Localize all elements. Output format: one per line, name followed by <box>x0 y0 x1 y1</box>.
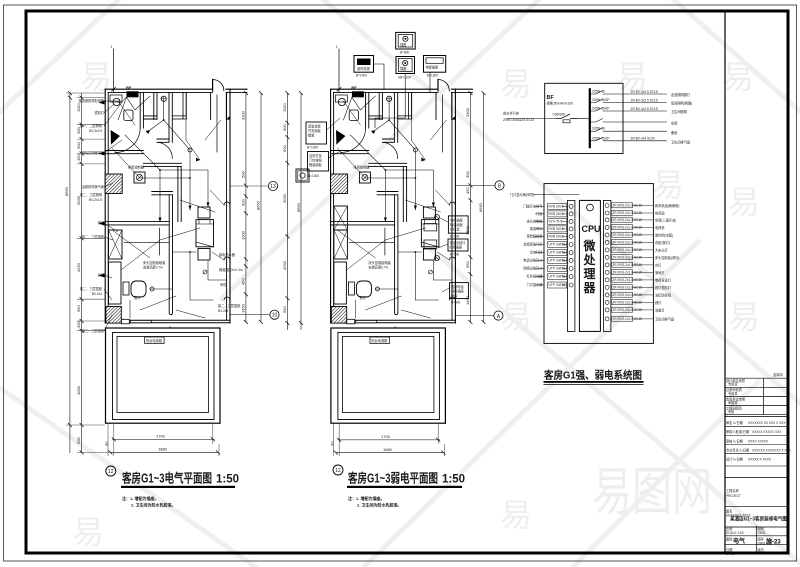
svg-text:微: 微 <box>583 238 597 253</box>
section line 2 <box>725 506 789 508</box>
svg-text:新风机组(两管制): 新风机组(两管制) <box>655 203 679 208</box>
svg-text:电话出线口x2: 电话出线口x2 <box>523 258 543 263</box>
mid right ticks <box>468 91 485 324</box>
grid circle 10 <box>270 310 279 319</box>
niche wall extension <box>216 95 218 152</box>
grid line B <box>456 184 495 186</box>
svg-text:房间照明(两路): 房间照明(两路) <box>671 100 692 105</box>
svg-text:电视背景灯: 电视背景灯 <box>655 277 672 282</box>
entry corridor wall <box>157 92 172 142</box>
wall: right outer <box>229 89 231 323</box>
svg-text:床头控制板: 床头控制板 <box>527 219 544 224</box>
bottom table lines <box>725 527 789 545</box>
svg-text:廊灯: 廊灯 <box>655 300 662 305</box>
svg-text:专业负责人/日期: 专业负责人/日期 <box>726 448 749 453</box>
wire to busbar <box>578 118 590 120</box>
branch 4 <box>590 119 678 126</box>
balcony wall inner <box>117 337 209 413</box>
svg-text:950: 950 <box>76 305 81 312</box>
wall: left outer <box>104 89 106 323</box>
dim texts left column <box>76 103 81 444</box>
svg-text:排风控制器: 排风控制器 <box>128 165 145 170</box>
svg-text:暗装插座h=0.3m: 暗装插座h=0.3m <box>219 267 243 272</box>
fixture: tub outline <box>110 95 122 102</box>
svg-text:BV-2x2.5: BV-2x2.5 <box>89 198 102 202</box>
svg-text:网络插座: 网络插座 <box>450 245 464 250</box>
svg-text:请勿打扰: 请勿打扰 <box>309 153 323 158</box>
boxed label L2 text <box>309 153 323 167</box>
watermark glyphs <box>72 59 760 550</box>
junction phi <box>203 270 207 274</box>
svg-text:1700: 1700 <box>156 434 166 439</box>
svg-text:门铃: 门铃 <box>536 211 543 216</box>
bottom cells <box>726 526 772 556</box>
svg-text:12: 12 <box>108 469 114 475</box>
svg-text:ZR-BV-3x2.5 SC15: ZR-BV-3x2.5 SC15 <box>631 90 658 94</box>
svg-text:2. 卫生间为防水乳胶漆。: 2. 卫生间为防水乳胶漆。 <box>131 502 175 508</box>
leader L1 <box>327 118 343 158</box>
svg-text:门口显示牌: 门口显示牌 <box>527 282 544 287</box>
BF box <box>545 83 623 153</box>
svg-text:1:50: 1:50 <box>442 474 465 486</box>
svg-text:4000: 4000 <box>76 385 81 395</box>
mid dim line right B <box>483 93 485 322</box>
branch 6 <box>590 136 690 144</box>
svg-text:客房G1~3电气平面图: 客房G1~3电气平面图 <box>121 471 212 486</box>
wall: bedroom top <box>105 222 169 225</box>
leader lines into plan <box>104 97 126 331</box>
svg-text:4250: 4250 <box>76 262 81 272</box>
title block divider <box>724 10 726 555</box>
svg-text:DWG.: DWG. <box>758 531 767 535</box>
svg-text:接二、三层插座: 接二、三层插座 <box>80 286 103 291</box>
svg-text:950: 950 <box>282 306 287 313</box>
svg-text:音量选择: 音量选择 <box>308 124 322 129</box>
svg-text:B=1300: B=1300 <box>307 146 318 150</box>
desk <box>109 262 122 304</box>
downlight B <box>150 287 154 291</box>
balcony wall mid <box>113 333 215 420</box>
wire arrows <box>146 130 210 222</box>
right dim ticks <box>244 91 263 324</box>
title block col divider upper <box>763 378 765 415</box>
grid line N <box>113 49 115 92</box>
svg-text:易: 易 <box>72 514 104 550</box>
mid wardrobe extension <box>334 206 348 230</box>
svg-text:易: 易 <box>728 184 760 220</box>
branch 3 <box>590 107 687 114</box>
svg-text:电气: 电气 <box>733 537 745 545</box>
svg-text:KB=1200: KB=1200 <box>398 76 411 80</box>
svg-text:理: 理 <box>584 267 596 281</box>
mid right boxed label R1 <box>448 216 468 233</box>
wire from box C <box>375 74 405 129</box>
svg-text:迷你吧(冰箱): 迷你吧(冰箱) <box>655 232 673 237</box>
svg-text:12: 12 <box>335 468 341 474</box>
svg-text:备用: 备用 <box>671 130 677 135</box>
svg-text:600: 600 <box>282 145 287 152</box>
svg-text:XXXXX X XXXX: XXXXX X XXXX <box>748 458 772 462</box>
svg-text:甲供: 甲供 <box>220 282 227 287</box>
entry rows mid <box>726 420 792 462</box>
svg-text:易: 易 <box>728 299 760 335</box>
circle 12 left <box>106 466 116 476</box>
right margin tiny labels <box>218 252 243 313</box>
wall: center partition <box>169 195 172 315</box>
boxed symbol L3 <box>296 169 309 182</box>
svg-text:版次: 版次 <box>758 547 765 552</box>
wardrobe X <box>109 230 123 259</box>
entry door leaf <box>212 80 214 92</box>
svg-text:落地灯: 落地灯 <box>655 270 665 275</box>
dim hlines left <box>66 93 110 452</box>
symbol box B outer <box>396 32 416 49</box>
svg-text:门磁开关信号: 门磁开关信号 <box>523 204 542 209</box>
left terminal strip <box>567 200 575 331</box>
junction dots <box>189 177 191 179</box>
dim 1700 <box>112 438 214 440</box>
svg-text:300: 300 <box>76 321 81 328</box>
svg-text:B=1400: B=1400 <box>356 74 367 78</box>
svg-text:某酒店G1~3客房装修电气图: 某酒店G1~3客房装修电气图 <box>729 516 787 523</box>
svg-text:B=800: B=800 <box>400 51 410 55</box>
symbol box A fill <box>357 59 371 66</box>
svg-text:暗装: 暗装 <box>308 133 315 138</box>
svg-text:3030: 3030 <box>282 193 287 203</box>
svg-text:BV-3x2.5: BV-3x2.5 <box>89 129 102 133</box>
mid balcony extension lines <box>333 424 444 456</box>
svg-text:施-23: 施-23 <box>766 538 781 546</box>
svg-text:接一、二层照明: 接一、二层照明 <box>80 123 102 128</box>
svg-text:8650: 8650 <box>64 186 69 196</box>
svg-text:廊灯镜前灯: 廊灯镜前灯 <box>655 285 672 290</box>
circle 12 mid <box>333 465 343 475</box>
svg-text:600: 600 <box>241 199 246 206</box>
svg-text:PROJECT: PROJECT <box>726 494 741 498</box>
svg-text:注：1. 增配为插座。: 注：1. 增配为插座。 <box>348 495 384 501</box>
svg-text:BV-2x4: BV-2x4 <box>92 292 103 296</box>
bottom col divider <box>755 526 757 554</box>
svg-text:走道照明廊灯: 走道照明廊灯 <box>671 92 691 97</box>
grid line 13 <box>231 185 269 187</box>
svg-text:追时电视: 追时电视 <box>357 66 371 71</box>
branch 2 <box>590 98 692 105</box>
svg-text:客房G1~3弱电平面图: 客房G1~3弱电平面图 <box>347 471 438 486</box>
svg-text:1880: 1880 <box>383 447 393 452</box>
svg-text:ZR-BV-3x2.5 SC15: ZR-BV-3x2.5 SC15 <box>631 107 658 111</box>
balcony label box <box>145 337 165 344</box>
svg-text:暗装面板: 暗装面板 <box>450 222 464 227</box>
right terminal circles <box>605 204 609 321</box>
entry niche walls <box>211 92 227 119</box>
svg-text:1700: 1700 <box>381 434 391 439</box>
grid circle 13 <box>268 181 277 190</box>
svg-text:150: 150 <box>76 154 81 161</box>
wall: bathroom right <box>140 92 143 128</box>
hatch column upper <box>105 174 122 194</box>
svg-text:插座: 插座 <box>400 66 407 71</box>
grid line 10 <box>231 314 270 316</box>
svg-text:开关面板: 开关面板 <box>308 128 322 133</box>
wall: bathroom bottom <box>105 151 143 154</box>
symbol box C inner <box>398 59 412 72</box>
svg-text:300: 300 <box>465 171 470 178</box>
grid circle B <box>495 181 504 190</box>
svg-text:接二、三层插座: 接二、三层插座 <box>82 234 105 239</box>
ceiling lamp <box>161 96 166 101</box>
svg-text:接二、三层插座: 接二、三层插座 <box>82 328 105 333</box>
svg-text:大床头灯: 大床头灯 <box>655 247 669 252</box>
small box KT <box>134 172 145 183</box>
svg-text:图别: 图别 <box>726 537 732 542</box>
svg-text:接二、三层插座: 接二、三层插座 <box>218 303 241 308</box>
svg-text:卫生间照明: 卫生间照明 <box>671 109 687 114</box>
wall: left inner <box>107 92 109 320</box>
svg-text:审核人批准/日期: 审核人批准/日期 <box>726 429 749 434</box>
svg-text:XXXXX XXXXX XXX: XXXXX XXXXX XXX <box>752 430 782 434</box>
wire web bedroom <box>118 96 226 300</box>
busbar <box>589 88 591 148</box>
fixture: shower dark <box>111 130 120 145</box>
dim 1880 <box>110 451 218 453</box>
svg-text:XXXXXXX XX XXX X XXX: XXXXXXX XX XXX X XXX <box>748 421 786 425</box>
closet partition <box>143 92 157 119</box>
mid-left dim numbers <box>282 103 301 313</box>
dim line left outer <box>69 93 71 453</box>
svg-text:卫生间排气扇: 卫生间排气扇 <box>655 316 674 321</box>
svg-text:网络出线口x2: 网络出线口x2 <box>523 266 543 271</box>
left outside labels <box>523 204 543 288</box>
svg-text:保险箱报警: 保险箱报警 <box>527 234 544 239</box>
svg-text:紧急呼叫: 紧急呼叫 <box>530 226 543 231</box>
svg-text:工程名称: 工程名称 <box>726 488 740 493</box>
svg-text:电视插座: 电视插座 <box>426 65 440 70</box>
boxed label L2 outer <box>308 152 329 172</box>
CPU top circle <box>587 204 594 211</box>
svg-text:暗装: 暗装 <box>451 293 458 298</box>
chair <box>131 281 146 297</box>
grid line A <box>456 315 494 317</box>
bed pillow lines <box>196 220 214 247</box>
entry door arc <box>213 80 224 91</box>
symbol box C outer <box>396 57 415 74</box>
entry closet shelf <box>172 92 186 119</box>
svg-text:红外探测器: 红外探测器 <box>527 274 544 279</box>
svg-text:浴霸灯: 浴霸灯 <box>655 307 665 312</box>
symbol box C circle <box>403 60 408 65</box>
symbol box B circle <box>403 36 408 41</box>
svg-text:B=300: B=300 <box>450 253 460 257</box>
mid dim line right A <box>469 93 471 322</box>
svg-text:易: 易 <box>500 66 532 102</box>
svg-text:规格:500x400x160: 规格:500x400x160 <box>547 101 574 106</box>
dim line right B <box>260 93 262 322</box>
svg-text:90: 90 <box>104 441 109 446</box>
right outside labels <box>655 203 679 321</box>
svg-text:3300: 3300 <box>241 110 246 120</box>
svg-text:床头控制板暗装: 床头控制板暗装 <box>143 260 166 265</box>
svg-text:门口显示牌(甲供): 门口显示牌(甲供) <box>510 192 534 197</box>
svg-text:SCALE 1:50: SCALE 1:50 <box>726 531 744 535</box>
distribution box BF (filled) <box>127 91 139 97</box>
svg-text:BF: BF <box>547 95 555 101</box>
svg-text:600: 600 <box>76 142 81 149</box>
leaders R <box>438 218 449 292</box>
svg-text:B=1300: B=1300 <box>427 74 438 78</box>
CPU outer box <box>544 184 653 344</box>
svg-text:排风扇: 排风扇 <box>655 211 665 216</box>
mid dim 1880 <box>336 452 444 454</box>
balcony sliding door rects <box>121 319 129 324</box>
svg-text:插座: 插座 <box>400 42 407 47</box>
wardrobe <box>109 230 123 259</box>
svg-text:审核人/日期: 审核人/日期 <box>726 438 743 443</box>
dim ticks left <box>68 91 84 454</box>
svg-text:接二、三层照明: 接二、三层照明 <box>80 192 102 197</box>
system title underline <box>544 381 644 383</box>
svg-text:门铃按钮: 门铃按钮 <box>309 158 323 163</box>
top leader wire <box>533 194 579 196</box>
caption mid underline <box>347 486 462 488</box>
svg-text:专用章: 专用章 <box>728 382 738 387</box>
svg-text:1450: 1450 <box>465 295 470 305</box>
svg-text:易: 易 <box>500 299 532 335</box>
svg-text:注：1. 增配为插座。: 注：1. 增配为插座。 <box>122 495 158 501</box>
svg-text:B=300: B=300 <box>450 235 460 239</box>
svg-text:1450: 1450 <box>241 303 246 313</box>
svg-text:2. 卫生间为防水乳胶漆。: 2. 卫生间为防水乳胶漆。 <box>357 502 401 508</box>
svg-text:ZR-BV-3x4 SC20: ZR-BV-3x4 SC20 <box>631 137 656 141</box>
right dim numbers <box>241 110 261 313</box>
downlight A <box>188 148 192 152</box>
svg-text:设计人/日期: 设计人/日期 <box>726 457 743 462</box>
svg-text:8650: 8650 <box>296 202 301 212</box>
balcony wall outer <box>106 328 221 423</box>
svg-text:90: 90 <box>329 441 334 446</box>
balcony dim extension lines <box>108 424 219 456</box>
svg-text:审定人/日期: 审定人/日期 <box>726 420 743 425</box>
svg-text:电话出线口: 电话出线口 <box>450 240 466 245</box>
branch 1 <box>590 90 691 97</box>
svg-text:CPU: CPU <box>582 224 601 234</box>
svg-text:3300: 3300 <box>465 107 470 117</box>
svg-text:衣柜(夜灯): 衣柜(夜灯) <box>655 240 670 245</box>
svg-text:450: 450 <box>241 278 246 285</box>
mid dim 1700 <box>338 439 440 441</box>
boxed label L1 inner text <box>308 124 322 138</box>
symbol box D outer <box>424 56 446 73</box>
svg-text:ZR-BV-3x2.5 SC15: ZR-BV-3x2.5 SC15 <box>631 98 658 102</box>
svg-text:XXXX XXXXX: XXXX XXXXX <box>748 439 769 443</box>
svg-text:夜灯: 夜灯 <box>134 295 141 300</box>
svg-text:卫生间排气扇: 卫生间排气扇 <box>671 139 690 144</box>
entry row underlines <box>725 426 789 466</box>
svg-text:走廊紧急门灯: 走廊紧急门灯 <box>523 242 543 247</box>
tv <box>123 282 129 295</box>
bathroom door arc <box>115 128 140 153</box>
svg-text:8650: 8650 <box>256 200 261 210</box>
svg-text:空调: 空调 <box>671 121 677 126</box>
svg-text:网络插座: 网络插座 <box>451 289 465 294</box>
mid right boxed label R2 <box>448 239 468 251</box>
nightstand lower <box>198 249 210 261</box>
svg-text:1150: 1150 <box>282 103 287 112</box>
svg-text:电视机: 电视机 <box>655 225 665 230</box>
wall: right inner <box>226 92 228 320</box>
cabinet counter line <box>124 228 169 255</box>
svg-text:BV-2x4: BV-2x4 <box>218 309 229 313</box>
wire web extra <box>112 93 224 318</box>
mid right boxed label R3 <box>450 283 469 299</box>
wire from box A <box>374 64 385 90</box>
mid-left dim line B <box>300 93 302 330</box>
svg-text:镜前灯: 镜前灯 <box>94 110 104 115</box>
svg-text:浴霸排风换气扇: 浴霸排风换气扇 <box>82 184 104 189</box>
svg-text:10: 10 <box>272 313 278 319</box>
svg-text:器: 器 <box>583 281 597 295</box>
svg-text:650: 650 <box>465 261 470 268</box>
svg-text:1: 1 <box>111 45 113 49</box>
mid right dim numbers <box>465 107 483 305</box>
svg-text:8650: 8650 <box>478 202 483 212</box>
svg-text:1500: 1500 <box>465 225 470 235</box>
lamp cross <box>161 96 166 101</box>
svg-text:审图章: 审图章 <box>728 400 738 405</box>
symbol box D inner <box>426 58 443 64</box>
main breaker <box>556 114 578 123</box>
svg-text:易: 易 <box>722 59 754 95</box>
right terminal strip <box>603 200 611 331</box>
svg-text:专用章: 专用章 <box>728 391 738 396</box>
svg-text:1:50: 1:50 <box>216 474 239 486</box>
svg-text:600: 600 <box>76 437 81 444</box>
svg-text:1880: 1880 <box>158 447 168 452</box>
svg-text:由水井引来: 由水井引来 <box>503 111 520 116</box>
svg-text:SYV-75-5: SYV-75-5 <box>549 220 563 224</box>
upper cells text <box>726 378 746 414</box>
svg-text:浴缸防雾镜: 浴缸防雾镜 <box>655 292 672 297</box>
left terminal circles <box>569 204 573 287</box>
hatch column lower <box>106 307 121 324</box>
svg-text:专用: 专用 <box>728 409 734 414</box>
svg-text:B=1300: B=1300 <box>308 174 319 178</box>
svg-text:XXXXXX XXXXXXX X XXX: XXXXXX XXXXXXX X XXX <box>752 449 792 453</box>
svg-text:接电热水器: 接电热水器 <box>219 252 236 257</box>
svg-text:客房G1强、弱电系统图: 客房G1强、弱电系统图 <box>543 369 642 382</box>
svg-text:B=300: B=300 <box>451 301 461 305</box>
entry niche arrow <box>226 116 230 119</box>
wall: top outer <box>105 88 247 90</box>
incoming wire <box>507 118 556 120</box>
socket circles mid plan <box>435 215 440 220</box>
section line <box>725 477 789 479</box>
svg-text:DATE: DATE <box>726 552 734 556</box>
svg-text:500: 500 <box>241 171 246 178</box>
svg-text:暗装面板: 暗装面板 <box>309 162 323 167</box>
svg-text:1000: 1000 <box>241 230 246 240</box>
svg-text:C65N/2P: C65N/2P <box>553 113 566 117</box>
svg-text:4250: 4250 <box>282 260 287 270</box>
left cable label boxes <box>548 203 567 288</box>
symbol box A outer <box>354 56 374 73</box>
fixture: toilet <box>124 110 133 121</box>
svg-text:电视电话: 电视电话 <box>451 284 465 289</box>
grid circle A <box>494 311 503 320</box>
wall: unit bottom double <box>105 320 230 323</box>
wall: corridor bottom <box>152 192 173 195</box>
left margin labels <box>79 98 105 333</box>
svg-text:1150: 1150 <box>76 103 81 112</box>
